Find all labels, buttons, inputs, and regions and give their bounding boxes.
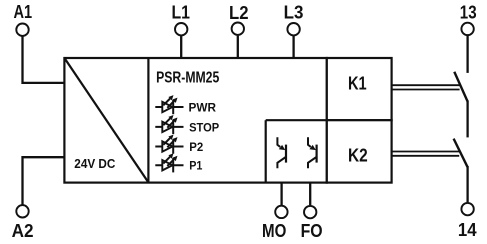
optocoupler FO output: [308, 137, 317, 168]
optocoupler MO output: [277, 137, 286, 168]
terminal 14: [461, 203, 473, 215]
svg-text:24V DC: 24V DC: [74, 156, 116, 171]
relay K2 box: [327, 120, 392, 182]
svg-text:MO: MO: [262, 221, 286, 241]
LED indicator PWR: [155, 95, 183, 114]
terminal FO: [304, 206, 316, 218]
svg-text:K1: K1: [348, 73, 367, 93]
terminal 13: [461, 23, 473, 35]
svg-text:P2: P2: [189, 140, 203, 154]
wire contact 2 to terminal 14: [466, 166, 468, 202]
wire A1: [23, 36, 65, 83]
contact blade K1: [454, 72, 467, 102]
svg-text:L1: L1: [172, 3, 191, 23]
optocoupler box: [266, 119, 327, 121]
svg-text:P1: P1: [189, 159, 202, 173]
wire contact 1 to contact 2: [466, 101, 468, 138]
LED indicator P2: [155, 135, 183, 154]
K1 mechanical linkage: [391, 85, 459, 89]
wire L3: [292, 36, 294, 58]
wire FO: [309, 183, 311, 206]
relay K1 box: [327, 58, 392, 120]
power supply divider: [147, 58, 149, 183]
terminal MO: [275, 206, 287, 218]
svg-text:FO: FO: [301, 221, 323, 241]
terminal L1: [175, 23, 187, 35]
wire MO: [280, 183, 282, 206]
LED indicator STOP: [155, 115, 183, 134]
svg-text:13: 13: [460, 3, 477, 23]
svg-text:A1: A1: [14, 2, 33, 22]
LED indicator P1: [155, 153, 183, 172]
svg-text:K2: K2: [348, 145, 368, 165]
power supply diagonal: [65, 58, 149, 182]
wire A2: [23, 157, 65, 204]
svg-text:L3: L3: [284, 3, 304, 23]
terminal L3: [287, 23, 299, 35]
svg-text:L2: L2: [229, 3, 249, 23]
svg-text:PWR: PWR: [189, 101, 217, 115]
main device box: [64, 58, 326, 183]
wire 13 to contact 1: [466, 36, 468, 73]
svg-text:STOP: STOP: [189, 121, 219, 135]
wire L2: [237, 36, 239, 58]
svg-text:A2: A2: [12, 221, 34, 241]
K2 mechanical linkage: [391, 152, 459, 156]
contact blade K2: [454, 139, 468, 168]
terminal A2: [16, 205, 28, 217]
wire L1: [180, 36, 182, 58]
terminal L2: [232, 23, 244, 35]
svg-text:14: 14: [458, 220, 477, 240]
svg-text:PSR-MM25: PSR-MM25: [156, 70, 219, 87]
terminal A1: [16, 24, 28, 36]
